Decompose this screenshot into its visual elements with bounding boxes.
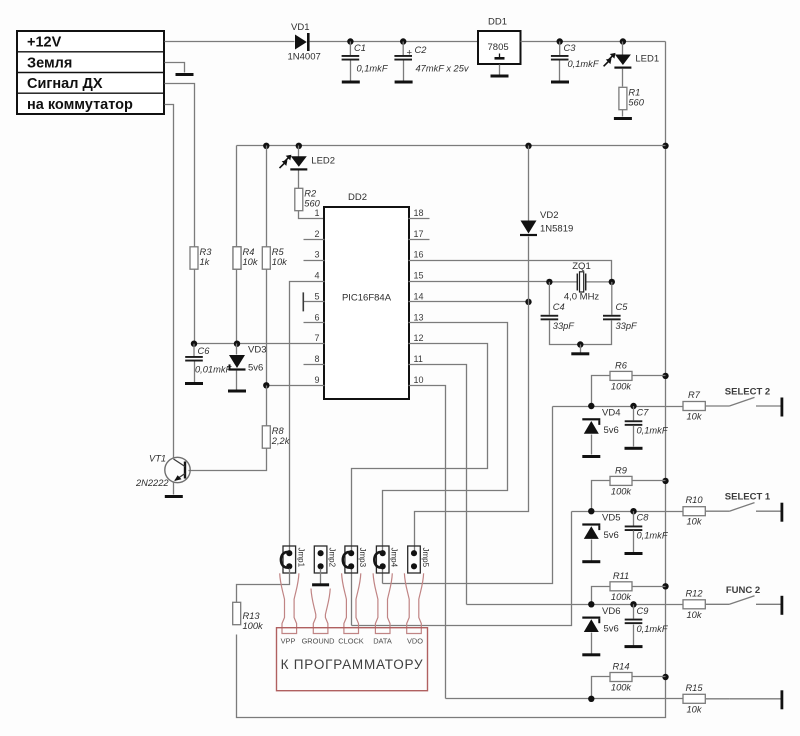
wire pin 18 stub bbox=[409, 218, 430, 220]
capacitor C6 bbox=[193, 344, 195, 356]
svg-text:47mkF x 25v: 47mkF x 25v bbox=[416, 64, 470, 74]
svg-text:VD5: VD5 bbox=[602, 513, 620, 524]
svg-text:2: 2 bbox=[314, 229, 319, 239]
svg-text:C8: C8 bbox=[637, 513, 650, 523]
junction LED2 column bbox=[296, 143, 302, 149]
svg-text:R1: R1 bbox=[628, 87, 640, 97]
junction pin9/R5/R8 bbox=[263, 382, 269, 388]
wire R1 to ground bbox=[622, 110, 624, 117]
ground C3 bbox=[551, 81, 569, 84]
junction rail/second rail bbox=[662, 143, 668, 149]
svg-text:ZQ1: ZQ1 bbox=[572, 261, 590, 272]
zener diode VD3 bbox=[229, 355, 246, 371]
svg-text:7805: 7805 bbox=[488, 42, 509, 53]
svg-text:R5: R5 bbox=[272, 247, 285, 257]
zener diode VD5 bbox=[582, 523, 600, 539]
svg-text:C7: C7 bbox=[637, 408, 650, 418]
wire +12V rail bbox=[165, 41, 295, 43]
junction C9 bbox=[630, 601, 636, 607]
wire Jmp3 bottom lead bbox=[351, 569, 353, 626]
svg-text:2N2222: 2N2222 bbox=[135, 478, 169, 488]
svg-text:VPP: VPP bbox=[281, 637, 296, 646]
svg-text:4: 4 bbox=[314, 271, 319, 281]
svg-text:VT1: VT1 bbox=[149, 454, 166, 464]
junction rail/R11 bbox=[662, 583, 668, 589]
wire R9 to rail bbox=[633, 480, 666, 482]
junction rail/R6 bbox=[662, 373, 668, 379]
junction R3/C6 bbox=[191, 341, 197, 347]
svg-text:Jmp3: Jmp3 bbox=[358, 548, 367, 568]
svg-text:10k: 10k bbox=[687, 517, 703, 527]
LED LED1 bbox=[604, 53, 660, 69]
capacitor C4 bbox=[548, 282, 550, 315]
resistor R4 bbox=[233, 247, 259, 269]
junction ZQ1 right bbox=[609, 279, 615, 285]
resistor R3 bbox=[190, 247, 212, 269]
junction rail/R14 bbox=[662, 674, 668, 680]
jumper Jmp2 bbox=[314, 546, 336, 573]
svg-text:11: 11 bbox=[414, 354, 423, 364]
svg-text:VD3: VD3 bbox=[248, 345, 266, 356]
capacitor C3 plates bbox=[551, 55, 569, 61]
svg-text:R15: R15 bbox=[685, 683, 703, 693]
svg-text:560: 560 bbox=[628, 97, 644, 107]
wire SELECT1 node row bbox=[572, 511, 683, 513]
junction R14/bottom row bbox=[588, 696, 594, 702]
wire bbox=[705, 603, 729, 605]
ground VD5 bbox=[582, 560, 600, 563]
svg-text:VD4: VD4 bbox=[602, 408, 620, 419]
resistor R2 bbox=[295, 188, 321, 210]
svg-text:PIC16F84A: PIC16F84A bbox=[342, 293, 392, 304]
svg-text:16: 16 bbox=[414, 250, 424, 260]
svg-text:VD1: VD1 bbox=[291, 22, 309, 33]
svg-text:C5: C5 bbox=[616, 302, 629, 312]
svg-text:100k: 100k bbox=[611, 683, 633, 693]
connector plug GROUND bbox=[311, 589, 330, 634]
wire VD2 to pin14 node and Jmp5 bbox=[415, 237, 529, 554]
svg-text:R7: R7 bbox=[688, 390, 701, 400]
ground C6 bbox=[185, 382, 203, 385]
wire R11 to rail bbox=[633, 586, 666, 588]
wire R14 left elbow bbox=[592, 677, 611, 699]
pin 5 terminator bar bbox=[302, 292, 304, 311]
connector plug VPP bbox=[280, 573, 299, 633]
wire Jmp1 to R13 bbox=[237, 569, 290, 603]
wire pin 15 to ZQ1 bbox=[409, 281, 550, 283]
wire C9 lower lead bbox=[633, 625, 635, 646]
wire SELECT2 node row bbox=[553, 406, 683, 408]
zener diode VD4 bbox=[582, 418, 600, 434]
ground crystal bbox=[571, 352, 589, 355]
wire R4 to VD3 node bbox=[236, 270, 238, 344]
svg-text:Сигнал ДХ: Сигнал ДХ bbox=[27, 76, 103, 92]
jumper Jmp5 bbox=[408, 546, 430, 573]
junction LED1 bbox=[620, 38, 626, 44]
capacitor C9 bbox=[633, 604, 635, 618]
programmer box bbox=[277, 628, 428, 691]
wire VD5 to ground bbox=[591, 540, 593, 561]
wire second +5V rail bbox=[237, 145, 666, 147]
diode VD1 bbox=[288, 22, 321, 63]
svg-text:C6: C6 bbox=[198, 346, 211, 356]
capacitor C9 plates bbox=[625, 619, 643, 625]
svg-text:Земля: Земля bbox=[27, 56, 72, 72]
wire SELECT2 to Jmp4 bottom bbox=[383, 407, 553, 584]
wire R11 left elbow bbox=[592, 587, 611, 605]
svg-text:Jmp1: Jmp1 bbox=[296, 548, 305, 568]
svg-text:R8: R8 bbox=[272, 426, 285, 436]
svg-text:5v6: 5v6 bbox=[604, 530, 619, 541]
svg-text:33pF: 33pF bbox=[616, 321, 639, 331]
svg-text:LED2: LED2 bbox=[311, 155, 335, 166]
wire DD1 gnd lead bbox=[499, 65, 501, 75]
svg-text:100k: 100k bbox=[611, 486, 633, 496]
svg-text:R10: R10 bbox=[685, 495, 703, 505]
wire pin 7 node bbox=[195, 343, 325, 345]
terminal FUNC2 bbox=[781, 596, 784, 615]
svg-text:C3: C3 bbox=[564, 43, 577, 53]
wire pin 17 stub bbox=[409, 239, 430, 241]
switch SELECT 1 bbox=[725, 492, 781, 512]
switch SELECT 2 bbox=[725, 387, 781, 407]
wire R5 to pin9 node bbox=[266, 270, 268, 386]
switch FUNC 2 bbox=[726, 585, 781, 605]
svg-text:10k: 10k bbox=[687, 610, 703, 620]
diode VD2 bbox=[520, 221, 537, 237]
svg-text:R2: R2 bbox=[304, 188, 317, 198]
svg-text:10k: 10k bbox=[272, 257, 288, 267]
wire pin9 node to R8 bbox=[266, 386, 268, 426]
wire ground stub bbox=[165, 63, 185, 73]
svg-text:7: 7 bbox=[314, 333, 319, 343]
svg-text:10: 10 bbox=[414, 375, 424, 385]
junction C1 bbox=[347, 38, 353, 44]
jumper Jmp4 bbox=[374, 546, 398, 573]
capacitor C4 plates bbox=[541, 315, 559, 321]
wire pin 8 stub bbox=[304, 364, 325, 366]
zener diode VD6 bbox=[582, 617, 600, 633]
wire C4/C5 bottom row bbox=[550, 321, 612, 345]
svg-text:1N4007: 1N4007 bbox=[288, 52, 321, 63]
svg-text:18: 18 bbox=[414, 208, 424, 218]
capacitor C7 plates bbox=[625, 420, 643, 426]
wire pin 14 to VD2 column bbox=[409, 301, 529, 303]
capacitor C5 top lead bbox=[611, 282, 613, 315]
wire VD3 top lead bbox=[236, 344, 238, 355]
svg-text:0,1mkF: 0,1mkF bbox=[637, 426, 669, 436]
svg-text:5: 5 bbox=[314, 291, 319, 301]
wire LED1 top lead bbox=[622, 42, 624, 55]
resistor R11 bbox=[610, 571, 632, 602]
junction VD6 bbox=[588, 601, 594, 607]
ground C7 bbox=[625, 447, 643, 450]
svg-text:C4: C4 bbox=[553, 302, 565, 312]
wire bottom node row bbox=[446, 698, 683, 700]
svg-text:SELECT 2: SELECT 2 bbox=[725, 387, 770, 398]
svg-text:R6: R6 bbox=[615, 360, 628, 370]
svg-text:GROUND: GROUND bbox=[302, 637, 335, 646]
svg-text:R13: R13 bbox=[243, 611, 261, 621]
resistor R6 bbox=[610, 360, 632, 391]
capacitor C1 plates bbox=[342, 55, 360, 61]
wire R14 to rail bbox=[633, 676, 666, 678]
svg-text:R3: R3 bbox=[200, 247, 213, 257]
wire LED1 to R1 bbox=[622, 69, 624, 87]
wire pin 6 stub bbox=[304, 322, 325, 324]
resistor R4 bbox=[135, 146, 783, 715]
svg-text:К ПРОГРАММАТОРУ: К ПРОГРАММАТОРУ bbox=[281, 657, 424, 672]
wire bbox=[705, 405, 729, 407]
svg-text:12: 12 bbox=[414, 333, 424, 343]
svg-text:0,1mkF: 0,1mkF bbox=[568, 59, 600, 69]
wire pin 16 to ZQ1 bbox=[409, 261, 612, 282]
svg-text:VD6: VD6 bbox=[602, 606, 620, 617]
svg-text:Jmp2: Jmp2 bbox=[328, 548, 337, 568]
svg-text:10k: 10k bbox=[687, 704, 703, 714]
svg-text:3: 3 bbox=[314, 250, 319, 260]
resistor R13 bbox=[233, 602, 264, 631]
capacitor C5 plates bbox=[603, 315, 621, 321]
svg-text:R12: R12 bbox=[685, 588, 703, 598]
wire rail to VD2 bbox=[528, 146, 530, 221]
svg-text:CLOCK: CLOCK bbox=[338, 637, 364, 646]
svg-text:560: 560 bbox=[304, 198, 320, 208]
svg-text:DD2: DD2 bbox=[348, 192, 367, 203]
svg-text:1k: 1k bbox=[200, 257, 211, 267]
svg-text:DD1: DD1 bbox=[488, 17, 507, 28]
svg-text:0,1mkF: 0,1mkF bbox=[637, 531, 669, 541]
wire LED2 to R2 bbox=[298, 171, 300, 189]
svg-text:4,0 MHz: 4,0 MHz bbox=[564, 292, 600, 303]
wire bbox=[729, 698, 781, 700]
junction VD4 bbox=[588, 403, 594, 409]
wire pin 2 stub bbox=[304, 239, 325, 241]
wire R8 to VT1 base bbox=[189, 449, 267, 471]
wire C7 lower lead bbox=[633, 426, 635, 447]
svg-text:DATA: DATA bbox=[373, 637, 392, 646]
wire C3 lower lead bbox=[559, 61, 561, 81]
ground DD1 bbox=[491, 75, 509, 78]
wire R6 to rail bbox=[633, 375, 666, 377]
wire R6 left elbow bbox=[592, 376, 611, 407]
capacitor C2 bbox=[402, 42, 404, 56]
svg-text:1: 1 bbox=[314, 208, 319, 218]
wire bbox=[705, 698, 729, 700]
svg-text:5v6: 5v6 bbox=[248, 363, 263, 374]
wire VD1 to DD1 bbox=[310, 41, 479, 43]
junction R5 column bbox=[263, 143, 269, 149]
svg-text:5v6: 5v6 bbox=[604, 623, 619, 634]
svg-text:15: 15 bbox=[414, 271, 424, 281]
wire pin 4 to Jmp1 bbox=[290, 282, 325, 554]
wire FUNC2 node row bbox=[467, 604, 683, 606]
wire pin 3 stub bbox=[304, 260, 325, 262]
ground VD4 bbox=[582, 455, 600, 458]
svg-text:2,2k: 2,2k bbox=[271, 436, 291, 446]
junction C2 bbox=[400, 38, 406, 44]
junction rail/R9 bbox=[662, 478, 668, 484]
svg-text:LED1: LED1 bbox=[635, 54, 659, 65]
svg-text:R11: R11 bbox=[613, 571, 629, 581]
svg-text:100k: 100k bbox=[243, 621, 265, 631]
wire crystal gnd stub bbox=[580, 345, 582, 353]
wire VD4 to ground bbox=[591, 435, 593, 455]
resistor R1 bbox=[619, 87, 645, 109]
svg-text:100k: 100k bbox=[611, 381, 633, 391]
transistor VT1 2N2222 bbox=[135, 454, 190, 489]
svg-text:+12V: +12V bbox=[27, 35, 62, 51]
LED LED2 bbox=[280, 155, 336, 171]
wire VT1 emitter bbox=[173, 483, 175, 495]
terminal R15 terminal bbox=[781, 690, 784, 709]
svg-text:FUNC 2: FUNC 2 bbox=[726, 585, 760, 596]
wire VD3 to ground bbox=[236, 371, 238, 390]
junction ZQ1 left bbox=[546, 279, 552, 285]
ground VD6 bbox=[582, 653, 600, 656]
junction C8 bbox=[630, 508, 636, 514]
wire LED2 top lead bbox=[298, 146, 300, 157]
wire signal DX to R3 bbox=[165, 84, 195, 247]
resistor R7 bbox=[683, 390, 705, 422]
junction VD3 bbox=[234, 341, 240, 347]
svg-text:13: 13 bbox=[414, 312, 424, 322]
junction VD2 column bbox=[525, 143, 531, 149]
wire pin 13 to Jmp4 bbox=[383, 323, 508, 554]
capacitor C8 plates bbox=[625, 526, 643, 532]
wire rail to R4 bbox=[236, 146, 238, 247]
svg-text:8: 8 bbox=[314, 354, 319, 364]
capacitor C3 bbox=[559, 42, 561, 56]
svg-text:6: 6 bbox=[314, 312, 319, 322]
wire C1 lower lead bbox=[350, 61, 352, 81]
svg-text:R14: R14 bbox=[612, 662, 629, 672]
wire C6 lower lead bbox=[194, 362, 196, 383]
wire pin 10 down bbox=[409, 386, 446, 699]
terminal SELECT1 bbox=[781, 503, 784, 522]
terminal SELECT2 bbox=[781, 398, 784, 417]
ground C1 bbox=[342, 81, 360, 84]
capacitor C2 plates bbox=[394, 55, 412, 61]
wire pin 11 to FUNC2 node bbox=[409, 365, 467, 605]
resistor R9 bbox=[610, 465, 632, 496]
resistor R12 bbox=[683, 588, 705, 620]
pin numbers DD2 left bbox=[314, 208, 319, 385]
svg-text:C1: C1 bbox=[354, 43, 366, 53]
junction pin14/VD2 bbox=[525, 299, 531, 305]
junction C3 bbox=[557, 38, 563, 44]
wire SELECT1 to Jmp3 bottom bbox=[352, 512, 572, 626]
wire pin 12 to Jmp3 bbox=[352, 344, 488, 554]
wire pin 5 stub bbox=[304, 301, 325, 303]
connector plug DATA bbox=[373, 573, 392, 633]
svg-text:5v6: 5v6 bbox=[604, 425, 619, 436]
ground VT1 bbox=[165, 495, 183, 498]
wire Jmp4 bottom lead bbox=[382, 569, 384, 584]
junction C7 bbox=[630, 403, 636, 409]
resistor R15 bbox=[683, 683, 705, 715]
wire R3 to C6 node bbox=[194, 270, 196, 344]
jumper Jmp1 bbox=[281, 546, 305, 573]
resistor R14 bbox=[610, 662, 632, 693]
svg-text:9: 9 bbox=[314, 375, 319, 385]
wire R9 left elbow bbox=[592, 481, 611, 512]
ground bbox=[176, 73, 194, 76]
connector plug CLOCK bbox=[342, 573, 361, 633]
wire VD6 to ground bbox=[591, 633, 593, 654]
ground C9 bbox=[625, 645, 643, 648]
resistor R8 bbox=[262, 426, 290, 448]
svg-text:0,1mkF: 0,1mkF bbox=[637, 624, 669, 634]
svg-text:C2: C2 bbox=[415, 45, 428, 55]
wire R2 to pin 1 bbox=[299, 211, 325, 219]
wire rail to R5 bbox=[266, 146, 268, 247]
svg-text:R4: R4 bbox=[243, 247, 255, 257]
wire +5V right rail and bottom return bbox=[237, 42, 666, 718]
pin numbers DD2 right bbox=[414, 208, 424, 385]
wire DD1 out to corner bbox=[521, 41, 666, 43]
svg-text:100k: 100k bbox=[611, 592, 633, 602]
junction crystal ground bbox=[577, 341, 583, 347]
regulator DD1 7805 bbox=[478, 17, 521, 65]
ground R1 bbox=[614, 117, 632, 120]
svg-text:17: 17 bbox=[414, 229, 424, 239]
svg-text:0,1mkF: 0,1mkF bbox=[357, 64, 389, 74]
svg-text:VD2: VD2 bbox=[540, 210, 558, 221]
capacitor C7 bbox=[633, 406, 635, 420]
op-amp U1 / microcontroller DD2 PIC16F84A bbox=[324, 192, 409, 399]
wire Jmp2 to ground bbox=[320, 569, 322, 584]
wire C8 lower lead bbox=[633, 531, 635, 553]
capacitor C1 bbox=[349, 42, 351, 56]
svg-text:+: + bbox=[407, 48, 413, 59]
svg-text:33pF: 33pF bbox=[553, 321, 576, 331]
wire to commutator / VT1 collector bbox=[165, 105, 174, 459]
jumper Jmp3 bbox=[343, 546, 367, 573]
resistor R10 bbox=[683, 495, 705, 527]
resistor R5 bbox=[262, 247, 288, 269]
svg-text:Jmp4: Jmp4 bbox=[390, 548, 399, 568]
svg-text:10k: 10k bbox=[687, 412, 703, 422]
svg-text:14: 14 bbox=[414, 291, 424, 301]
capacitor C8 bbox=[633, 511, 635, 525]
connector plug VDD bbox=[404, 573, 423, 633]
crystal ZQ1 bbox=[549, 261, 611, 303]
svg-text:R9: R9 bbox=[615, 465, 627, 475]
svg-text:0,01mkF: 0,01mkF bbox=[195, 365, 232, 375]
wire bbox=[705, 510, 729, 512]
wire C2 lower lead bbox=[403, 61, 405, 81]
svg-text:VDO: VDO bbox=[407, 637, 423, 646]
ground Jmp2 bbox=[312, 583, 329, 586]
junction VD5 bbox=[588, 508, 594, 514]
ground C2 bbox=[395, 81, 413, 84]
svg-text:10k: 10k bbox=[243, 257, 259, 267]
svg-text:1N5819: 1N5819 bbox=[540, 224, 573, 235]
svg-text:Jmp5: Jmp5 bbox=[421, 548, 430, 568]
ground VD3 bbox=[228, 390, 246, 393]
connector box J1 (power/signal header) bbox=[17, 31, 164, 114]
svg-text:C9: C9 bbox=[637, 606, 649, 616]
capacitor C6 plates bbox=[185, 356, 203, 362]
svg-text:на коммутатор: на коммутатор bbox=[27, 97, 133, 113]
ground C8 bbox=[625, 552, 643, 555]
wire pin 9 bbox=[267, 385, 325, 387]
svg-text:SELECT 1: SELECT 1 bbox=[725, 492, 771, 503]
